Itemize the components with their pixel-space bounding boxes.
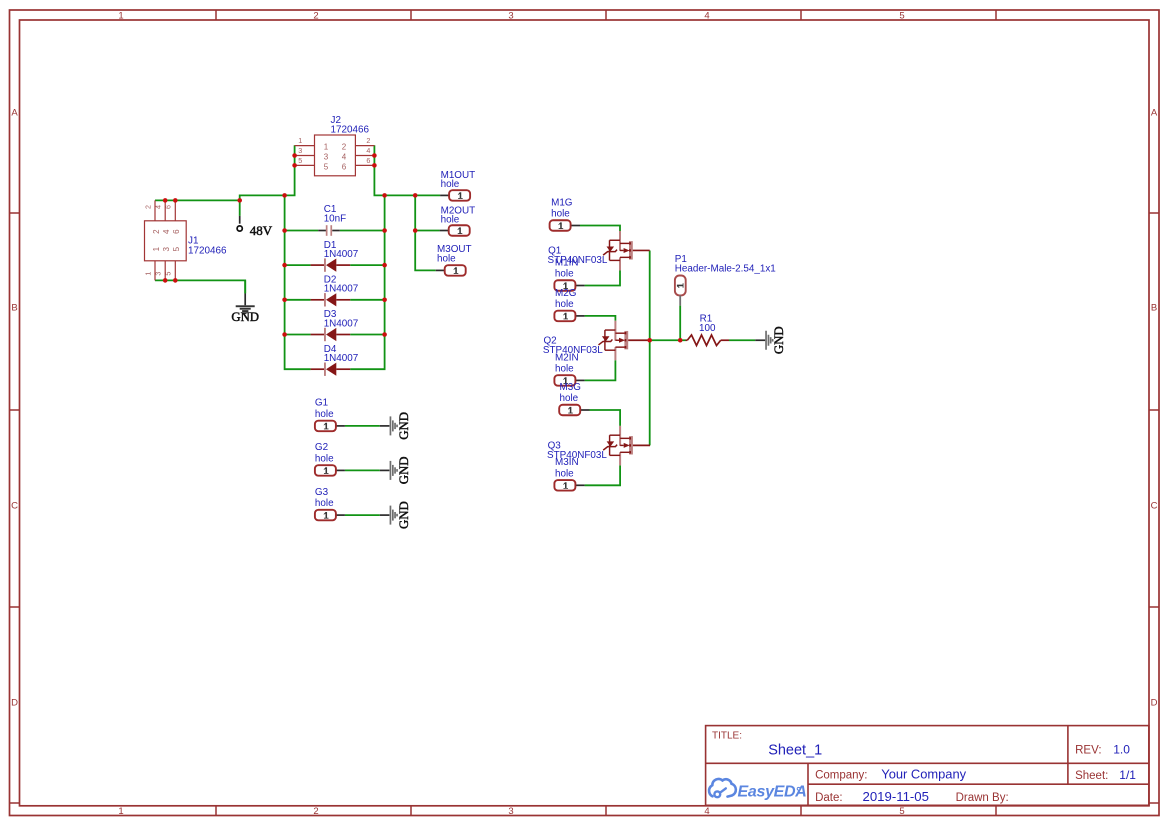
- svg-text:EasyEDA: EasyEDA: [738, 784, 807, 801]
- svg-text:hole: hole: [441, 179, 460, 190]
- svg-text:hole: hole: [315, 409, 334, 420]
- svg-text:6: 6: [172, 229, 181, 234]
- svg-text:hole: hole: [555, 468, 574, 479]
- svg-text:1720466: 1720466: [188, 246, 227, 257]
- svg-text:GND: GND: [397, 501, 411, 529]
- svg-text:hole: hole: [551, 209, 570, 220]
- svg-text:1: 1: [324, 143, 329, 152]
- svg-text:2019-11-05: 2019-11-05: [863, 789, 929, 804]
- svg-text:3: 3: [298, 146, 302, 155]
- svg-text:3: 3: [508, 806, 513, 817]
- svg-text:5: 5: [298, 156, 302, 165]
- svg-text:1: 1: [152, 246, 161, 251]
- svg-text:Header-Male-2.54_1x1: Header-Male-2.54_1x1: [675, 264, 777, 275]
- svg-text:M2G: M2G: [555, 288, 576, 299]
- svg-text:4: 4: [366, 146, 370, 155]
- svg-text:hole: hole: [555, 269, 574, 280]
- svg-text:2: 2: [313, 806, 318, 817]
- svg-text:5: 5: [324, 162, 329, 171]
- svg-text:TITLE:: TITLE:: [712, 731, 742, 742]
- svg-text:M3G: M3G: [560, 382, 581, 393]
- svg-text:GND: GND: [231, 310, 259, 324]
- svg-text:3: 3: [508, 11, 513, 22]
- svg-text:5: 5: [899, 806, 904, 817]
- svg-text:2: 2: [366, 136, 370, 145]
- svg-text:5: 5: [899, 11, 904, 22]
- svg-text:Company:: Company:: [815, 769, 867, 781]
- svg-text:B: B: [1151, 303, 1157, 314]
- svg-text:48V: 48V: [250, 223, 273, 238]
- svg-text:STP40NF03L: STP40NF03L: [543, 345, 603, 356]
- svg-text:hole: hole: [437, 254, 456, 265]
- svg-text:10nF: 10nF: [324, 214, 347, 225]
- svg-text:1: 1: [298, 136, 302, 145]
- svg-text:3: 3: [324, 152, 329, 161]
- svg-text:1: 1: [118, 806, 123, 817]
- svg-text:6: 6: [164, 205, 173, 209]
- svg-text:G1: G1: [315, 398, 329, 409]
- svg-text:1N4007: 1N4007: [324, 284, 359, 295]
- svg-text:4: 4: [154, 205, 163, 209]
- svg-text:D: D: [11, 698, 18, 709]
- svg-text:6: 6: [366, 156, 370, 165]
- svg-text:1720466: 1720466: [331, 125, 370, 136]
- svg-text:1N4007: 1N4007: [324, 353, 359, 364]
- svg-text:Sheet_1: Sheet_1: [768, 742, 822, 758]
- svg-text:Drawn By:: Drawn By:: [956, 792, 1009, 804]
- svg-text:5: 5: [164, 272, 173, 276]
- svg-text:1N4007: 1N4007: [324, 249, 359, 260]
- svg-text:hole: hole: [315, 498, 334, 509]
- svg-text:STP40NF03L: STP40NF03L: [548, 255, 608, 266]
- svg-text:2: 2: [143, 205, 152, 209]
- svg-text:M1G: M1G: [551, 197, 572, 208]
- svg-text:GND: GND: [397, 412, 411, 440]
- svg-text:1: 1: [118, 11, 123, 22]
- svg-text:STP40NF03L: STP40NF03L: [547, 450, 607, 461]
- svg-text:hole: hole: [315, 453, 334, 464]
- svg-text:4: 4: [704, 806, 709, 817]
- svg-text:B: B: [11, 303, 17, 314]
- svg-text:6: 6: [342, 162, 347, 171]
- svg-text:GND: GND: [772, 326, 786, 354]
- svg-text:2: 2: [152, 229, 161, 234]
- svg-text:G3: G3: [315, 487, 329, 498]
- svg-text:A: A: [1151, 108, 1158, 119]
- svg-text:hole: hole: [555, 299, 574, 310]
- svg-text:3: 3: [162, 246, 171, 251]
- svg-text:Your Company: Your Company: [881, 766, 966, 781]
- svg-text:hole: hole: [555, 364, 574, 375]
- svg-text:2: 2: [313, 11, 318, 22]
- svg-text:100: 100: [699, 323, 716, 334]
- svg-text:Date:: Date:: [815, 792, 843, 804]
- svg-text:1/1: 1/1: [1119, 768, 1136, 782]
- svg-text:1.0: 1.0: [1113, 742, 1130, 756]
- svg-text:hole: hole: [441, 214, 460, 225]
- svg-text:4: 4: [162, 229, 171, 234]
- svg-text:A: A: [11, 108, 18, 119]
- svg-text:1N4007: 1N4007: [324, 318, 359, 329]
- svg-text:1: 1: [143, 272, 152, 276]
- svg-text:C: C: [1151, 501, 1158, 512]
- svg-text:5: 5: [172, 246, 181, 251]
- svg-text:REV:: REV:: [1075, 744, 1101, 756]
- svg-text:4: 4: [342, 152, 347, 161]
- svg-text:Sheet:: Sheet:: [1075, 770, 1108, 782]
- svg-text:4: 4: [704, 11, 709, 22]
- svg-text:2: 2: [342, 143, 347, 152]
- svg-text:G2: G2: [315, 442, 328, 453]
- svg-text:D: D: [1151, 698, 1158, 709]
- svg-text:GND: GND: [397, 457, 411, 485]
- svg-text:3: 3: [154, 272, 163, 276]
- svg-text:hole: hole: [560, 393, 579, 404]
- svg-text:C: C: [11, 501, 18, 512]
